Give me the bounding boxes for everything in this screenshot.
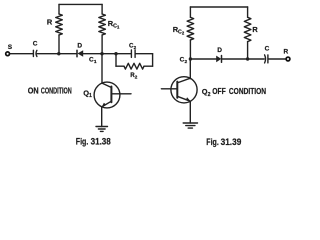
svg-text:1: 1 xyxy=(117,25,120,30)
wire: S to capacitor C xyxy=(10,53,33,55)
capacitor C (right) xyxy=(264,55,267,63)
svg-text:CONDITION: CONDITION xyxy=(229,86,266,96)
wire: capacitor C to terminal R xyxy=(268,58,286,60)
wire: network left vertical xyxy=(115,54,117,66)
diode D triangle xyxy=(77,50,83,57)
svg-text:D: D xyxy=(77,43,82,50)
wire: diode to node C1 and on to network junction xyxy=(83,53,131,55)
svg-text:OFF: OFF xyxy=(212,86,226,96)
svg-text:C: C xyxy=(265,45,270,52)
svg-text:1: 1 xyxy=(89,93,92,99)
resistor RC2 xyxy=(187,17,194,40)
node: junction dot R / main wire xyxy=(57,52,60,55)
svg-text:S: S xyxy=(8,44,13,51)
wire: node C2 to diode D xyxy=(190,58,216,60)
svg-text:2: 2 xyxy=(208,92,211,98)
svg-text:31.38: 31.38 xyxy=(91,136,111,147)
wire: network bottom right lead xyxy=(144,65,153,67)
wire: right R bottom lead xyxy=(247,42,249,59)
svg-text:2: 2 xyxy=(134,45,137,50)
resistor R2 xyxy=(124,63,144,69)
node: junction dot right R / wire xyxy=(246,57,249,60)
wire: Q2 emitter down to ground xyxy=(189,101,191,123)
resistor R (right) xyxy=(244,17,251,41)
wire: node C1 down to Q1 collector xyxy=(101,54,103,83)
svg-text:2: 2 xyxy=(185,59,188,65)
svg-text:2: 2 xyxy=(135,74,138,79)
svg-text:Fig.: Fig. xyxy=(76,136,89,147)
svg-text:31.39: 31.39 xyxy=(221,137,242,148)
wire: C2 to network right corner xyxy=(136,53,153,55)
svg-text:R: R xyxy=(252,25,258,34)
wire: network right vertical xyxy=(152,54,154,66)
svg-text:C: C xyxy=(33,41,38,48)
wire: rail to RC2 top xyxy=(189,7,191,17)
resistor RC1 xyxy=(99,14,106,35)
ground (Q1 emitter) xyxy=(96,126,108,128)
wire: RC2 bottom lead to node C2 xyxy=(189,40,191,59)
wire: Q1 base lead xyxy=(111,93,131,95)
transistor Q1 xyxy=(94,82,120,108)
svg-text:R: R xyxy=(284,48,289,55)
node R output terminal xyxy=(286,57,290,61)
diode D (right) cathode bar xyxy=(221,56,223,63)
wire: node C2 down to Q2 collector xyxy=(189,59,191,79)
node C2 junction dot xyxy=(189,57,192,60)
wire: network bottom left lead xyxy=(116,65,124,67)
resistor R xyxy=(56,14,63,35)
wire: Q1 emitter down to ground xyxy=(101,107,103,127)
svg-text:R: R xyxy=(47,17,53,26)
wire: Q2 base lead xyxy=(161,88,177,90)
wire: left top rail xyxy=(59,3,102,5)
capacitor C xyxy=(32,50,34,56)
svg-text:ON: ON xyxy=(28,86,39,96)
diode D cathode bar xyxy=(76,50,78,57)
svg-text:CONDITION: CONDITION xyxy=(41,86,72,96)
node S terminal xyxy=(6,52,10,56)
wire: diode to capacitor C xyxy=(222,58,264,60)
wire: rail to right R top xyxy=(247,7,249,17)
svg-text:Fig.: Fig. xyxy=(206,137,219,148)
wire: rail to RC1 top xyxy=(101,4,103,14)
wire: rail to R top xyxy=(58,4,60,14)
ground (Q2 emitter) xyxy=(183,122,197,124)
wire: capacitor C to diode D xyxy=(37,53,77,55)
transistor Q2 xyxy=(171,77,197,103)
svg-text:2: 2 xyxy=(182,30,185,35)
wire: right top rail xyxy=(190,6,247,8)
wire: RC1 bottom lead to node C1 xyxy=(101,35,103,54)
svg-text:D: D xyxy=(217,47,222,54)
node C1 junction dot xyxy=(100,52,103,55)
capacitor C2 xyxy=(130,50,132,57)
node: junction dot C2R2 network xyxy=(114,52,117,55)
diode D (right) triangle xyxy=(216,56,221,63)
svg-text:1: 1 xyxy=(94,59,97,65)
wire: R bottom lead xyxy=(58,35,60,54)
